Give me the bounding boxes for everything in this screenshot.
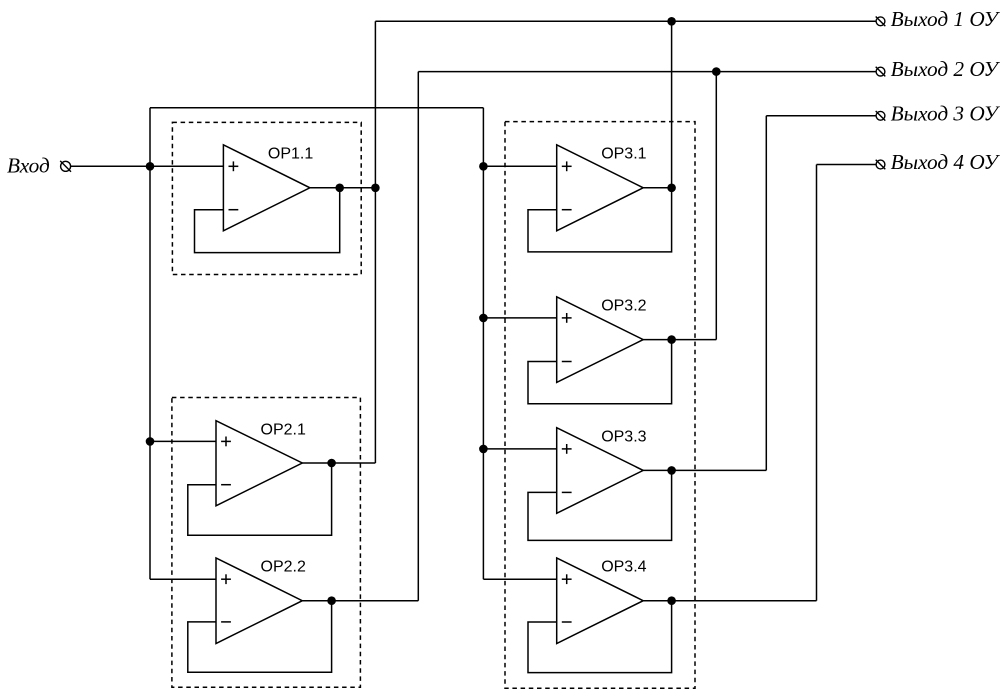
junction output 1 line with OP3.1 branch: [667, 17, 676, 26]
svg-text:Выход 2 ОУ: Выход 2 ОУ: [891, 57, 1001, 81]
junction input bus at OP2.1 input: [146, 437, 155, 446]
junction OP3.1 feedback tap on output: [667, 184, 676, 193]
wire OP2.2 feedback loop output to inverting input: [188, 601, 332, 673]
wire to OP2.1 + input: [150, 440, 216, 442]
op-amp OP3.3: [557, 428, 644, 514]
op-amp OP2.1 inverting input marker -: [221, 484, 231, 486]
wire to OP3.4 + input: [483, 578, 556, 580]
wire input bus top horizontal: [150, 107, 483, 109]
svg-text:Выход 1 ОУ: Выход 1 ОУ: [891, 7, 1001, 31]
dashed selection box around OP3.1 OP3.2 OP3.3 OP3.4: [505, 122, 695, 689]
op-amp OP2.2: [216, 558, 302, 644]
junction OP1.1 feedback tap on output: [335, 184, 344, 193]
junction input bus at OP3.2 input: [479, 314, 488, 323]
wire OP3.1 feedback loop output to inverting input: [528, 188, 672, 252]
junction OP3.2 feedback tap on output: [667, 335, 676, 344]
output terminal 4: [876, 160, 886, 170]
output terminal 1: [876, 17, 886, 27]
dashed selection box around OP1.1: [172, 122, 361, 274]
junction OP2.1 feedback tap on output: [327, 459, 336, 468]
svg-text:OP1.1: OP1.1: [268, 146, 313, 163]
op-amp OP1.1: [223, 145, 310, 231]
op-amp OP3.1: [557, 145, 644, 231]
junction OP3.4 feedback tap on output: [667, 596, 676, 605]
svg-text:OP3.1: OP3.1: [601, 146, 646, 163]
op-amp OP3.2 non-inverting input marker +: [562, 313, 572, 323]
wire OP3.4 output horizontal: [643, 600, 816, 602]
wire OP3.1 output horizontal: [643, 187, 671, 189]
op-amp OP3.4: [557, 558, 644, 644]
wire OP3.1 output up to output 1 line: [671, 21, 673, 188]
dashed selection box around OP2.1 and OP2.2: [172, 398, 361, 688]
wire output 4 line: [817, 164, 876, 166]
junction input bus at OP3.3 input: [479, 445, 488, 454]
wire output 1 line: [375, 20, 876, 22]
wire OP1.1 output to bus V1: [310, 187, 376, 189]
svg-text:Вход: Вход: [7, 153, 50, 177]
op-amp OP3.4 non-inverting input marker +: [562, 574, 572, 584]
wire OP3.3 output up to output 3 line: [765, 116, 767, 471]
junction OP1.1 output on bus V1: [371, 184, 380, 193]
op-amp OP2.1 non-inverting input marker +: [221, 437, 231, 447]
op-amp OP3.2: [557, 297, 644, 383]
wire OP1.1 feedback loop output to inverting input: [195, 188, 340, 253]
wire OP3.4 output up to output 4 line: [816, 165, 818, 601]
wire to OP2.2 + input: [150, 578, 216, 580]
wire OP3.2 output up to output 2 line: [715, 72, 717, 340]
wire bus V1 vertical (output 1 line to OP2.1 output): [374, 21, 376, 463]
op-amp OP1.1 inverting input marker -: [229, 209, 239, 211]
wire to OP3.2 + input: [483, 317, 556, 319]
wire OP3.3 feedback loop output to inverting input: [528, 470, 672, 540]
op-amp OP2.2 inverting input marker -: [221, 621, 231, 623]
wire bus V2 vertical (output 2 line to OP2.2 output): [417, 72, 419, 601]
wire OP2.2 output to bus V2: [302, 600, 418, 602]
wire OP3.2 feedback loop output to inverting input: [528, 340, 672, 404]
op-amp OP3.3 non-inverting input marker +: [562, 444, 572, 454]
svg-text:OP3.4: OP3.4: [601, 559, 646, 576]
junction input bus at OP3.1 input: [479, 162, 488, 171]
output terminal 3: [876, 111, 886, 121]
wire OP3.2 output horizontal: [643, 339, 716, 341]
wire input bus vertical right: [482, 108, 484, 579]
op-amp OP3.1 inverting input marker -: [562, 209, 572, 211]
wire OP2.1 output to bus V1: [302, 462, 375, 464]
junction OP2.2 feedback tap on output: [327, 596, 336, 605]
junction input bus at OP1.1 input: [146, 162, 155, 171]
junction OP3.3 feedback tap on output: [667, 466, 676, 475]
op-amp OP2.1: [216, 421, 302, 506]
svg-text:Выход 4 ОУ: Выход 4 ОУ: [891, 150, 1001, 174]
wire input terminal to OP1.1 + input: [70, 165, 223, 167]
wire OP3.3 output horizontal: [643, 469, 766, 471]
wire OP3.4 feedback loop output to inverting input: [528, 601, 672, 673]
wire to OP3.3 + input: [483, 448, 556, 450]
op-amp OP3.2 inverting input marker -: [562, 361, 572, 363]
op-amp OP3.4 inverting input marker -: [562, 621, 572, 623]
junction output 2 line with OP3.2 branch: [712, 67, 721, 76]
wire output 2 line: [418, 71, 876, 73]
input terminal: [60, 161, 71, 172]
wire input bus vertical left: [149, 108, 151, 579]
op-amp OP1.1 non-inverting input marker +: [229, 161, 239, 171]
svg-text:OP2.1: OP2.1: [261, 421, 306, 438]
op-amp OP3.3 inverting input marker -: [562, 491, 572, 493]
wire output 3 line: [766, 115, 876, 117]
op-amp OP2.2 non-inverting input marker +: [221, 574, 231, 584]
svg-text:Выход 3 ОУ: Выход 3 ОУ: [891, 101, 1001, 125]
op-amp OP3.1 non-inverting input marker +: [562, 161, 572, 171]
svg-text:OP3.3: OP3.3: [601, 428, 646, 445]
wire OP2.1 feedback loop output to inverting input: [188, 463, 332, 535]
svg-text:OP3.2: OP3.2: [601, 298, 646, 315]
svg-text:OP2.2: OP2.2: [261, 559, 306, 576]
output terminal 2: [876, 67, 886, 77]
wire to OP3.1 + input: [483, 165, 556, 167]
